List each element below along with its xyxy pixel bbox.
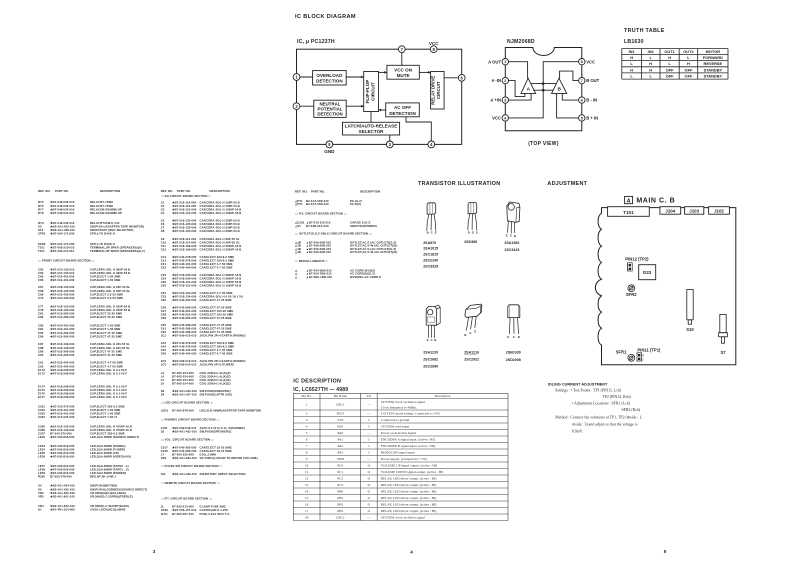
svg-text:SYSTEM clock oscillator signal: SYSTEM clock oscillator signal: [381, 516, 425, 520]
svg-text:CAP,ELECT 47-25 SME: CAP,ELECT 47-25 SME: [90, 334, 122, 338]
svg-text:LSI TEST mode setting. Connect: LSI TEST mode setting. Connected to VSS: [381, 412, 440, 416]
svg-text:O: O: [368, 477, 371, 481]
wire pin7 B OUT to op-amp B output: [560, 71, 579, 81]
svg-text:FORWARD: FORWARD: [703, 55, 723, 60]
U2 pin 7: [579, 77, 585, 83]
svg-text:C8: C8: [161, 229, 165, 233]
svg-text:8.0mV.: 8.0mV.: [572, 430, 583, 434]
svg-text:2SB1330: 2SB1330: [506, 350, 521, 354]
block: NEUTRAL POTENTIAL DETECTION: [314, 100, 346, 117]
svg-text:H: H: [687, 61, 690, 66]
svg-text:O: O: [368, 496, 371, 500]
svg-text:—: —: [366, 412, 371, 416]
svg-text:PC0: PC0: [337, 464, 343, 468]
svg-text:SW,ROTARY (INPUT SELECTOR): SW,ROTARY (INPUT SELECTOR): [200, 472, 246, 476]
svg-text:E173: E173: [38, 371, 45, 375]
svg-text:C30: C30: [161, 284, 167, 288]
svg-text:MOTOR: MOTOR: [706, 49, 721, 54]
svg-text:—: —: [366, 431, 371, 435]
wire ac off detection to pin4: [406, 117, 431, 145]
svg-text:REF. NO.: REF. NO.: [38, 189, 51, 193]
svg-text:B7-03B-22A-010: B7-03B-22A-010: [306, 224, 329, 228]
svg-text:JACK,PIN 2P H (TUNER): JACK,PIN 2P H (TUNER): [200, 363, 234, 367]
transistor illustration Q type 2SB1330 (flat package front): [508, 305, 520, 318]
svg-text:CAP,CERA-SOL H 0.1-50 F: CAP,CERA-SOL H 0.1-50 F: [90, 371, 127, 375]
svg-text:RELAY, LED driver output. (ac: RELAY, LED driver output. (active : HI): [381, 477, 437, 482]
svg-text:2SC3419: 2SC3419: [504, 248, 519, 252]
wire flip-flop to vcc on mute: [379, 71, 387, 73]
svg-text:17: 17: [305, 509, 309, 513]
svg-text:S9: S9: [161, 393, 165, 397]
svg-text:LB1630: LB1630: [624, 39, 644, 45]
svg-text:IN1: IN1: [629, 49, 636, 54]
svg-text:AC OFF: AC OFF: [394, 105, 411, 110]
svg-text:2SA1216: 2SA1216: [464, 350, 479, 354]
svg-text:G: G: [472, 230, 475, 234]
svg-text:★B7-018-199-000: ★B7-018-199-000: [172, 248, 197, 252]
transistor illustration Q type 2SA1216 (flat tilted package): [465, 304, 482, 317]
svg-text:★B7-018-209-000: ★B7-018-209-000: [50, 395, 75, 399]
IC U2 NJM2068D package outline with notch: [505, 48, 582, 131]
svg-text:C39: C39: [161, 316, 167, 320]
svg-text:(TOP VIEW): (TOP VIEW): [528, 141, 559, 147]
svg-text:VCC: VCC: [429, 41, 439, 46]
svg-text:C46: C46: [161, 352, 167, 356]
svg-text:2: 2: [306, 412, 308, 416]
svg-text:★B7-010-360-000: ★B7-010-360-000: [50, 334, 75, 338]
svg-text:PART NO.: PART NO.: [311, 190, 325, 194]
svg-text:RELAY, LED driver output. (ac: RELAY, LED driver output. (active : HI): [381, 483, 437, 488]
svg-text:TERMINAL,8P SPKR (SPEAKERS)(G,: TERMINAL,8P SPKR (SPEAKERS)(G,Z): [90, 249, 145, 253]
connector J103: [685, 207, 704, 215]
svg-text:B: B: [518, 335, 520, 339]
svg-text:18: 18: [305, 516, 309, 520]
svg-text:SW,PUSH(POWER): SW,PUSH(POWER): [350, 224, 377, 228]
svg-text:DESCRIPTION: DESCRIPTION: [210, 189, 230, 193]
svg-text:15: 15: [305, 496, 309, 500]
svg-text:1: 1: [306, 403, 308, 407]
svg-text:—: —: [366, 403, 371, 407]
svg-text:FLIP-FLOP: FLIP-FLOP: [365, 80, 370, 104]
svg-text:E: E: [507, 335, 509, 339]
svg-text:B7-002-878-000: B7-002-878-000: [172, 409, 194, 413]
svg-text:△: △: [294, 275, 298, 279]
svg-text:GND: GND: [324, 149, 335, 154]
svg-text:RY8: RY8: [38, 211, 44, 215]
svg-text:CAP,ELECT 47-25 SME: CAP,ELECT 47-25 SME: [200, 316, 232, 320]
svg-text:SFR1: SFR1: [616, 349, 627, 354]
svg-text:B + IN: B + IN: [586, 116, 598, 121]
svg-text:RELAY, LED driver output. (ac: RELAY, LED driver output. (active : HI): [381, 509, 437, 514]
svg-text:RELAY,HB-D42W80-SP: RELAY,HB-D42W80-SP: [90, 211, 122, 215]
svg-text:PA3: PA3: [337, 451, 343, 455]
svg-text:R250: R250: [38, 475, 45, 479]
svg-text:CAP,CERA-SOL H 3300P-16 B: CAP,CERA-SOL H 3300P-16 B: [200, 248, 242, 252]
svg-text:B: B: [434, 338, 436, 342]
svg-text:C: C: [469, 331, 472, 335]
svg-text:CAP,CERA-SOL H 0.1-50 F: CAP,CERA-SOL H 0.1-50 F: [90, 395, 127, 399]
svg-text:L6: L6: [161, 382, 165, 386]
svg-text:PC2: PC2: [337, 477, 343, 481]
svg-text:★B2-4A1-438-010: ★B2-4A1-438-010: [172, 472, 197, 476]
board label A MAIN C.B: [625, 196, 633, 203]
svg-text:VOLUME UP signal output. (act: VOLUME UP signal output. (active : HI): [381, 464, 437, 468]
svg-text:3: 3: [642, 354, 644, 357]
svg-text:J102: J102: [714, 208, 724, 213]
pin 7: [398, 46, 405, 53]
U2 pin 5: [579, 115, 585, 121]
svg-text:OUTLET,AC K-W (AC OUTLET)(K): OUTLET,AC K-W (AC OUTLET)(K): [350, 250, 397, 254]
svg-text:★B2-4A1-639-010: ★B2-4A1-639-010: [172, 456, 197, 460]
svg-text:CAP,ELECT 4.7-50 SME: CAP,ELECT 4.7-50 SME: [200, 352, 233, 356]
svg-text:DESCRIPTION: DESCRIPTION: [100, 189, 120, 193]
svg-text:C12: C12: [161, 248, 167, 252]
svg-text:L: L: [630, 61, 633, 66]
svg-text:VR3: VR3: [38, 494, 44, 498]
svg-text:RELAY DRIVE: RELAY DRIVE: [431, 76, 436, 105]
transistor illustration Q type 2SA1220 (TO-126F): [426, 307, 436, 326]
svg-text:5: 5: [664, 549, 667, 554]
pin 2: [293, 103, 300, 110]
svg-text:C22: C22: [161, 266, 167, 270]
transformer T101 box: [608, 207, 650, 217]
svg-text:B - IN: B - IN: [586, 98, 597, 103]
diode D23 box: [639, 265, 656, 280]
svg-text:H: H: [630, 67, 633, 72]
svg-text:—: —: [366, 516, 371, 520]
svg-text:Method : Connect the voltmet: Method : Connect the voltmeter at TP1, T…: [555, 415, 642, 420]
svg-text:DESCRIPTION: DESCRIPTION: [360, 190, 380, 194]
svg-text:STANDBY: STANDBY: [704, 73, 723, 78]
svg-text:RELAY, LED driver output. (ac: RELAY, LED driver output. (active : HI): [381, 490, 437, 495]
svg-text:COIL 220UH L4L(X)(Z): COIL 220UH L4L(X)(Z): [200, 382, 231, 386]
svg-text:2SC2682: 2SC2682: [423, 357, 438, 361]
svg-text:CAP,ELECT 47-25 SME: CAP,ELECT 47-25 SME: [200, 298, 232, 302]
svg-text:I/O: I/O: [367, 394, 372, 398]
svg-text:OVERLOAD: OVERLOAD: [316, 73, 343, 78]
svg-text:CUSH LOCK(NC)(3.9WH2: CUSH LOCK(NC)(3.9WH2: [90, 507, 126, 511]
svg-text:B2-4A7-50B-010: B2-4A7-50B-010: [306, 202, 329, 206]
svg-text:B: B: [514, 234, 516, 238]
svg-text:C90: C90: [38, 353, 44, 357]
svg-text:3: 3: [627, 264, 629, 267]
svg-text:E: E: [435, 230, 437, 234]
wire flip-flop to latch selector: [370, 112, 372, 123]
wire pin1 A OUT to op-amp A output: [509, 62, 528, 78]
svg-text:OUT2: OUT2: [683, 49, 694, 54]
svg-text:CAP,ELECT 33-25 SME: CAP,ELECT 33-25 SME: [90, 315, 122, 319]
svg-text:★B7-018-209-000: ★B7-018-209-000: [50, 371, 75, 375]
U2 pin 6: [579, 97, 585, 103]
svg-text:★B7-016-125-000: ★B7-016-125-000: [172, 229, 197, 233]
svg-text:CAP,ELECT 4.7-50 SME: CAP,ELECT 4.7-50 SME: [200, 266, 233, 270]
svg-text:2SA1360: 2SA1360: [504, 241, 519, 245]
svg-text:::: P.S. CIRCUIT BOARD SECTION: ::: P.S. CIRCUIT BOARD SECTION :::: [295, 212, 347, 216]
svg-text:CAP,ELECT 47-25 SME: CAP,ELECT 47-25 SME: [90, 353, 122, 357]
svg-text:J103: J103: [689, 208, 699, 213]
svg-text:RES: RES: [337, 425, 343, 429]
svg-text:LED,SLN-56WR (VIDEO/AUX): LED,SLN-56WR (VIDEO/AUX): [90, 455, 131, 459]
svg-text:3: 3: [153, 549, 156, 554]
svg-text:PA2: PA2: [337, 444, 343, 448]
svg-text:PB2: PB2: [337, 503, 343, 507]
svg-text:B7-005-154-000: B7-005-154-000: [172, 382, 194, 386]
svg-text:PIN11 (TP1): PIN11 (TP1): [637, 348, 661, 353]
pin 5: [326, 141, 333, 148]
svg-text:H: H: [630, 55, 633, 60]
svg-text:::: REMOTE CIRCUIT BOARD SECTI: ::: REMOTE CIRCUIT BOARD SECTION :::: [161, 481, 220, 485]
svg-text:DETECTION: DETECTION: [317, 112, 342, 117]
svg-text:C204: C204: [38, 415, 45, 419]
svg-text:VCC: VCC: [492, 116, 501, 121]
svg-text:TP2 (PIN12, Rch): TP2 (PIN12, Rch): [602, 395, 631, 400]
svg-text:I: I: [368, 444, 370, 448]
svg-text:IC BLOCK DIAGRAM: IC BLOCK DIAGRAM: [295, 14, 356, 20]
svg-text:REF. NO.: REF. NO.: [295, 190, 308, 194]
svg-text:E: E: [427, 338, 429, 342]
svg-text:LED,SLN-56WR(ADAPTOR TAPE MONI: LED,SLN-56WR(ADAPTOR TAPE MONITOR): [200, 409, 262, 413]
svg-text:H: H: [668, 55, 671, 60]
svg-text:RELAY, LED driver output. (ac: RELAY, LED driver output. (active : HI): [381, 503, 437, 508]
svg-text:CAP,ELECT 3.3-50 SME: CAP,ELECT 3.3-50 SME: [90, 296, 123, 300]
svg-text:★B7-009-010-010: ★B7-009-010-010: [172, 363, 197, 367]
svg-text:I: I: [368, 418, 370, 422]
pin 1: [293, 74, 300, 81]
svg-text:★B7-009-010-010: ★B7-009-010-010: [172, 334, 197, 338]
op-amp A: [521, 78, 536, 93]
U2 pin 3: [502, 97, 508, 103]
wire pin7 to vcc on mute: [401, 49, 403, 65]
svg-text:B7-006-367-010: B7-006-367-010: [172, 512, 194, 516]
svg-text:SFR,4.7K D4AE H: SFR,4.7K D4AE H: [90, 232, 115, 236]
svg-text:B: B: [557, 87, 561, 93]
svg-text:IC, μ PC1237H: IC, μ PC1237H: [297, 39, 335, 45]
svg-text:CAP,CERA-SOL H 330P-50 B: CAP,CERA-SOL H 330P-50 B: [200, 229, 240, 233]
svg-text:SELECTOR: SELECTOR: [359, 129, 385, 134]
svg-text:C66: C66: [38, 278, 44, 282]
svg-text:★B7-024-171-000: ★B7-024-171-000: [50, 232, 75, 236]
svg-text:Connected to ground: Connected to ground: [381, 418, 410, 422]
svg-text:CIRCUIT: CIRCUIT: [436, 81, 441, 99]
svg-text:O: O: [368, 503, 371, 507]
svg-text:VR1: VR1: [161, 456, 167, 460]
svg-text:::: LED CIRCUIT BOARD SECTION: ::: LED CIRCUIT BOARD SECTION :::: [161, 401, 213, 405]
svg-text:TRANSISTOR ILLUSTRATION: TRANSISTOR ILLUSTRATION: [418, 181, 500, 187]
svg-text:::: PHONES CIRCUIT BOARD SECTI: ::: PHONES CIRCUIT BOARD SECTION :::: [161, 418, 220, 422]
svg-text:S10: S10: [686, 327, 694, 332]
wire pin4 VCC up the center to pin8 VCC: [509, 62, 579, 118]
svg-text:OFF: OFF: [685, 67, 693, 72]
transistor illustration Q type 2SA970 group (TO-92): [427, 203, 436, 214]
svg-text:LED,SLN-56WR (SOURCE DIRECT): LED,SLN-56WR (SOURCE DIRECT): [90, 435, 139, 439]
svg-text:C70: C70: [38, 296, 44, 300]
svg-text:D: D: [468, 230, 470, 234]
svg-text:7: 7: [306, 444, 308, 448]
svg-text:PIN12 (TP2): PIN12 (TP2): [625, 256, 649, 261]
svg-text:2SK389: 2SK389: [464, 240, 477, 244]
svg-text:B: B: [427, 230, 429, 234]
potentiometer SFR1 symbol: [628, 354, 635, 361]
block: OVERLOAD DETECTION: [313, 71, 347, 85]
svg-text:★B7-010-401-000: ★B7-010-401-000: [50, 278, 75, 282]
svg-text:★B7-016-121-000: ★B7-016-121-000: [172, 211, 197, 215]
pin 4: [428, 141, 435, 148]
svg-text:C82: C82: [38, 315, 44, 319]
svg-text:★B7-010-382-000: ★B7-010-382-000: [50, 315, 75, 319]
svg-text:L: L: [630, 73, 633, 78]
svg-text:△JB: △JB: [294, 250, 301, 254]
svg-text:SFR2 (Rch): SFR2 (Rch): [622, 408, 641, 412]
svg-text:CAP,CERA-SOL H 1500P-50 B: CAP,CERA-SOL H 1500P-50 B: [200, 284, 242, 288]
svg-text:2SC2690: 2SC2690: [423, 364, 438, 368]
wire overload detection to flip-flop: [346, 76, 364, 78]
svg-text:▲B7-0B5-1BB-010: ▲B7-0B5-1BB-010: [306, 275, 332, 279]
wire op-amp A to op-amp B upper link: [531, 83, 556, 85]
svg-text:12: 12: [305, 477, 309, 481]
svg-text:DETECTION: DETECTION: [316, 79, 343, 84]
svg-text:PC.K(U): PC.K(U): [350, 202, 361, 206]
svg-text:ENCODER B signal input. (acti: ENCODER B signal input. (active : HI): [381, 444, 435, 448]
transistor illustration Q type 2SA1360 (TO-126 with hole): [507, 202, 520, 223]
svg-text:★B7-040-360-000: ★B7-040-360-000: [172, 316, 197, 320]
svg-text:C4: C4: [161, 211, 165, 215]
svg-text:11: 11: [305, 470, 309, 474]
svg-text:A: A: [527, 87, 531, 93]
svg-text:Pin No.: Pin No.: [301, 394, 312, 398]
svg-text:Power supply. (connected to +: Power supply. (connected to +5V): [381, 457, 427, 461]
svg-text:VSS: VSS: [337, 418, 343, 422]
svg-text:13: 13: [305, 483, 309, 487]
connector J104: [660, 207, 681, 215]
svg-text:B: B: [464, 333, 466, 337]
svg-text:::: FRONT CIRCUIT BOARD SECTIO: ::: FRONT CIRCUIT BOARD SECTION :::: [38, 259, 95, 263]
svg-text:S7: S7: [720, 350, 726, 355]
svg-text:VCC: VCC: [586, 59, 595, 64]
block: RELAY DRIVE CIRCUIT: [431, 72, 445, 110]
svg-text:ADJUSTMENT: ADJUSTMENT: [547, 181, 587, 187]
svg-text:★B2-4A1-432-010: ★B2-4A1-432-010: [172, 429, 197, 433]
svg-text:A OUT: A OUT: [488, 59, 501, 64]
switch S7 shaft: [720, 314, 726, 332]
svg-text:SW,PUSH(SPEAKERS): SW,PUSH(SPEAKERS): [200, 429, 232, 433]
svg-text:TEST: TEST: [336, 412, 345, 416]
svg-text:REVERSE: REVERSE: [704, 61, 723, 66]
wire pin1 to overload detection: [297, 76, 313, 78]
pin 6: [458, 74, 465, 81]
svg-text:RELAY, LED driver output. (ac: RELAY, LED driver output. (active : HI): [381, 496, 437, 501]
svg-text:REMOCON signal input.: REMOCON signal input.: [381, 451, 416, 455]
svg-text:9: 9: [306, 457, 308, 461]
svg-text:PC1: PC1: [337, 470, 343, 474]
test point PIN11 header symbol: [637, 353, 642, 361]
svg-text:C86: C86: [38, 334, 44, 338]
svg-text:RES,NF 6K-1/4W J: RES,NF 6K-1/4W J: [90, 475, 116, 479]
svg-text:Description: Description: [435, 394, 451, 398]
svg-text:C: C: [431, 338, 434, 342]
svg-text:E177: E177: [38, 395, 45, 399]
svg-text:IC, LC6527TH — 4989: IC, LC6527TH — 4989: [293, 387, 348, 393]
svg-text:DETECTION: DETECTION: [389, 111, 416, 116]
svg-text:★B7-040-404-000: ★B7-040-404-000: [172, 266, 197, 270]
svg-text:T101: T101: [38, 249, 45, 253]
svg-text:Power on detection signal: Power on detection signal: [381, 431, 416, 435]
svg-text:IDLING CURRENT ADJUSTMENT: IDLING CURRENT ADJUSTMENT: [548, 382, 608, 386]
junction node lower: [542, 89, 545, 92]
svg-text:LED1: LED1: [161, 409, 169, 413]
svg-text:S2: S2: [161, 429, 165, 433]
wire neutral potential detection to flip-flop: [346, 105, 364, 107]
svg-text:STANDBY: STANDBY: [704, 67, 723, 72]
svg-text:O: O: [368, 483, 371, 487]
pin 3: [386, 141, 393, 148]
switch S10 shaft: [687, 289, 693, 319]
svg-text:O: O: [368, 470, 371, 474]
wire pin2 to neutral potential detection: [297, 105, 314, 107]
svg-text:C35: C35: [161, 298, 167, 302]
wire pin5 B +IN to op-amp B non-inverting input: [557, 93, 579, 118]
svg-text:SYSTEM reset input: SYSTEM reset input: [381, 425, 410, 429]
svg-text:★B7-010-403-000: ★B7-010-403-000: [50, 296, 75, 300]
svg-text:★B7-4R1-154-000: ★B7-4R1-154-000: [50, 507, 75, 511]
svg-text:PB3: PB3: [337, 509, 343, 513]
svg-text:TRUTH TABLE: TRUTH TABLE: [624, 28, 665, 34]
svg-text:2SD2008: 2SD2008: [506, 358, 521, 362]
svg-text:★B2-4A1-641-010: ★B2-4A1-641-010: [50, 494, 75, 498]
svg-text:BUSHING,AC CORD E: BUSHING,AC CORD E: [350, 275, 381, 279]
wire op-amp A to op-amp B lower link: [533, 89, 553, 91]
svg-text:S11: S11: [161, 472, 166, 476]
svg-text:Clock frequency is 4MHz.: Clock frequency is 4MHz.: [381, 406, 417, 410]
svg-text:10: 10: [305, 464, 309, 468]
svg-text:★B7-040-360-000: ★B7-040-360-000: [172, 298, 197, 302]
svg-text:MAIN C. B: MAIN C. B: [636, 198, 675, 205]
wire latch selector to pin3: [389, 135, 391, 144]
test point PIN12 header symbol: [628, 263, 633, 271]
wire pin6 B -IN to op-amp B inverting input: [562, 93, 578, 100]
svg-text:6: 6: [306, 438, 308, 442]
svg-text:OSC1: OSC1: [336, 403, 345, 407]
svg-text:★B7-010-360-000: ★B7-010-360-000: [50, 353, 75, 357]
U2 pin 2: [502, 77, 508, 83]
svg-text:2SA1015: 2SA1015: [423, 247, 438, 251]
svg-text:VOLUME DOWN signal output. (a: VOLUME DOWN signal output. (active : HI): [381, 470, 444, 474]
svg-text:CIRCUIT: CIRCUIT: [370, 82, 375, 101]
svg-text:OUT1: OUT1: [664, 49, 675, 54]
svg-text:CAP,ELECT 1-50 SME: CAP,ELECT 1-50 SME: [90, 278, 121, 282]
svg-text:VR,50K(D) C (OPEN)(TREBLE): VR,50K(D) C (OPEN)(TREBLE): [90, 494, 133, 498]
svg-text:JC3: JC3: [161, 363, 167, 367]
IC description table grid: [293, 392, 508, 394]
svg-text:PA1: PA1: [337, 438, 343, 442]
svg-text:L: L: [668, 61, 671, 66]
svg-text:L: L: [687, 55, 690, 60]
svg-text:LATCH/AUTO-RELEASE: LATCH/AUTO-RELEASE: [345, 124, 398, 129]
svg-text:::: OUTLET(G,K,Z ONLY) CIRCUIT: ::: OUTLET(G,K,Z ONLY) CIRCUIT BOARD SEC…: [295, 231, 372, 235]
svg-text:::: VOL. CIRCUIT BOARD SECTION: ::: VOL. CIRCUIT BOARD SECTION :::: [161, 437, 214, 441]
svg-text:H: H: [649, 61, 652, 66]
block: FLIP-FLOP CIRCUIT: [364, 72, 379, 112]
svg-text:8: 8: [306, 451, 308, 455]
svg-text:OSC2: OSC2: [336, 516, 345, 520]
svg-text:O: O: [368, 464, 371, 468]
svg-text:2SC2240: 2SC2240: [423, 259, 438, 263]
svg-text:PA0: PA0: [337, 431, 343, 435]
U2 pin 1: [502, 59, 508, 65]
svg-text:★B7-015-005-000: ★B7-015-005-000: [50, 415, 75, 419]
svg-text:A: A: [627, 198, 631, 204]
svg-text:C: C: [513, 335, 516, 339]
svg-text:IN2: IN2: [648, 49, 655, 54]
